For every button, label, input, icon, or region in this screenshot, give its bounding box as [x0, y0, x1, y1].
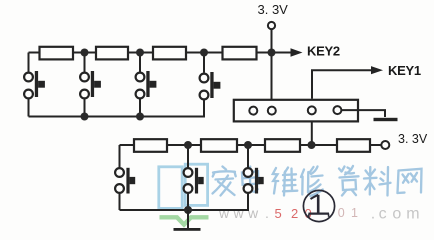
arrow KEY2 [291, 48, 303, 56]
pushbutton SW2 [80, 71, 101, 98]
watermark char jia [213, 167, 236, 196]
resistor R4 [223, 47, 257, 60]
node dot lower rail I [308, 141, 316, 149]
pushbutton SW1 [24, 71, 45, 98]
wire SW5 to lower bottom rail [119, 193, 121, 210]
svg-text:3. 3V: 3. 3V [258, 2, 289, 17]
power terminal 3.3V lower [381, 141, 389, 149]
resistor R6 [201, 139, 237, 152]
watermark url .com [371, 205, 420, 222]
svg-text:m: m [406, 205, 419, 222]
pushbutton SW7 [244, 168, 264, 194]
wire SW1 to bottom rail [28, 99, 30, 117]
contact pad bar [374, 118, 398, 121]
connector pin 2 [268, 107, 276, 115]
wire lower rail [120, 144, 382, 146]
resistor R2 [96, 47, 128, 60]
node dot top rail C [200, 49, 208, 57]
svg-text:.: . [371, 205, 375, 222]
svg-text:.: . [265, 205, 269, 221]
resistor R1 [40, 47, 74, 60]
wire KEY1 line [312, 70, 372, 99]
wire left drop to SW1 [28, 53, 30, 73]
watermark char zi [339, 166, 359, 196]
svg-text:1: 1 [351, 206, 358, 220]
watermark circled 1 [303, 190, 334, 221]
wire drop to SW6 [187, 145, 189, 168]
pushbutton SW6 [184, 168, 204, 194]
svg-text:3. 3V: 3. 3V [398, 132, 428, 146]
watermark char dian [242, 167, 259, 192]
resistor R7 [265, 139, 300, 152]
wire drop to SW3 [139, 53, 141, 73]
node dot bottom rail F [136, 113, 144, 121]
power terminal 3.3V top [268, 22, 275, 29]
watermark book logo [159, 164, 208, 208]
wire lower bottom rail [120, 193, 249, 210]
node dot lower rail H [244, 141, 252, 149]
connector pin 1 [249, 107, 257, 115]
pushbutton SW4 [200, 72, 221, 99]
wire SW3 to bottom rail [139, 99, 141, 117]
pushbutton SW5 [115, 168, 135, 194]
connector pin 4 [333, 106, 341, 114]
resistor R3 [153, 47, 186, 60]
connector pin 3 [308, 106, 316, 114]
arrow KEY1 [371, 66, 383, 74]
svg-text:o: o [392, 205, 401, 222]
watermark url www. [218, 205, 269, 221]
watermark char xiu [301, 167, 323, 197]
wire drop to SW4 [203, 53, 205, 73]
svg-text:0: 0 [338, 206, 345, 220]
node dot bottom rail E [81, 113, 89, 121]
svg-text:w: w [233, 205, 245, 221]
wire lower-left drop [119, 145, 121, 168]
wire SW6 to lower bottom rail [187, 193, 189, 210]
svg-text:KEY2: KEY2 [307, 43, 340, 58]
svg-text:2: 2 [291, 206, 298, 221]
wire ground stem [187, 210, 189, 228]
node dot top rail A [81, 49, 89, 57]
wire connector pin4 to contact pad [341, 110, 385, 117]
ground [174, 228, 201, 231]
watermark green check [160, 217, 209, 224]
watermark char liao [364, 167, 391, 196]
svg-text:w: w [218, 205, 230, 221]
wire drop to SW7 [247, 145, 249, 168]
wire upper bottom rail [29, 99, 205, 117]
wire SW2 to bottom rail [84, 99, 86, 117]
svg-text:5: 5 [275, 206, 282, 221]
watermark url 01 [338, 206, 358, 220]
pushbutton SW3 [136, 71, 157, 98]
watermark url 520 [275, 206, 312, 221]
node dot lower rail G [184, 141, 192, 149]
resistor R8 [337, 139, 370, 152]
connector J1 [234, 100, 358, 122]
node dot top rail D 3.3V/KEY2 [268, 49, 276, 57]
svg-text:KEY1: KEY1 [388, 63, 421, 78]
node dot top rail B [136, 49, 144, 57]
resistor R5 [134, 139, 167, 152]
wire 3.3V supply drop to connector [271, 29, 273, 107]
wire top rail [29, 52, 292, 54]
wire drop to SW2 [84, 53, 86, 73]
node dot lower bottom rail J [184, 206, 192, 214]
watermark char wang [398, 169, 422, 193]
watermark char wei [273, 168, 298, 196]
svg-text:c: c [379, 205, 387, 222]
wire connector pin3 to lower rail [311, 114, 313, 145]
